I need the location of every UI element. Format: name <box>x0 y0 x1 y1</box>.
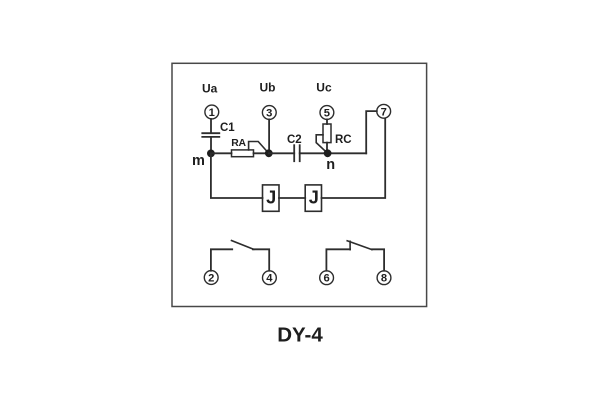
svg-text:C2: C2 <box>287 134 302 146</box>
svg-text:4: 4 <box>266 273 273 285</box>
resistor RA <box>232 150 254 157</box>
node n <box>324 149 332 157</box>
svg-text:n: n <box>326 157 335 173</box>
svg-text:DY-4: DY-4 <box>277 324 323 347</box>
terminal 8 <box>377 271 391 285</box>
wire C2 to node n and right riser <box>300 152 367 154</box>
contact arm across RA <box>249 142 269 154</box>
wire RC to node n <box>326 143 328 154</box>
svg-text:1: 1 <box>209 107 215 119</box>
terminal 5 <box>320 106 334 120</box>
contact 6-8 (normally closed) <box>326 241 384 271</box>
svg-text:m: m <box>192 153 205 169</box>
svg-text:Ua: Ua <box>202 81 218 95</box>
capacitor C2 <box>294 145 300 161</box>
svg-text:7: 7 <box>381 106 387 118</box>
wire terminal 3 down <box>268 119 270 153</box>
capacitor C1 <box>202 133 219 137</box>
contact 2-4 (normally open) <box>211 241 269 271</box>
svg-text:Ub: Ub <box>260 80 276 94</box>
wire node m to RA <box>211 152 232 154</box>
terminal 3 <box>262 106 276 120</box>
terminal 7 <box>377 104 391 118</box>
node m <box>207 150 215 158</box>
wire riser up to terminal 7 <box>366 111 377 153</box>
wire terminal1 to C1 <box>210 119 212 133</box>
svg-text:6: 6 <box>323 273 329 285</box>
svg-text:2: 2 <box>208 273 214 285</box>
wire node3 to C2 <box>269 152 294 154</box>
wire terminal 5 to RC <box>326 119 328 124</box>
relay coil J (right) <box>305 185 321 211</box>
wire C1 to node m <box>210 137 212 153</box>
schematic border frame <box>172 63 427 306</box>
svg-text:3: 3 <box>266 108 272 120</box>
wire RA to node under terminal 3 <box>254 152 269 154</box>
terminal 2 <box>204 271 218 285</box>
svg-text:RC: RC <box>335 134 352 146</box>
wire node m down to relay bus <box>211 153 263 198</box>
relay coil J (left) <box>263 185 280 211</box>
svg-text:C1: C1 <box>220 122 235 134</box>
svg-text:5: 5 <box>324 108 330 120</box>
terminal 6 <box>320 271 334 285</box>
svg-text:J: J <box>266 188 276 208</box>
wire terminal 7 down to relay bus <box>322 118 386 198</box>
svg-text:Uc: Uc <box>316 80 332 94</box>
svg-text:J: J <box>309 188 319 208</box>
resistor RC <box>323 124 331 143</box>
wire between relay coils <box>279 197 305 199</box>
contact arm beside RC <box>316 135 327 154</box>
svg-text:8: 8 <box>381 273 387 285</box>
terminal 4 <box>263 271 277 285</box>
svg-text:RA: RA <box>231 138 246 149</box>
junction node under terminal 3 <box>265 149 273 157</box>
terminal 1 <box>205 105 219 119</box>
